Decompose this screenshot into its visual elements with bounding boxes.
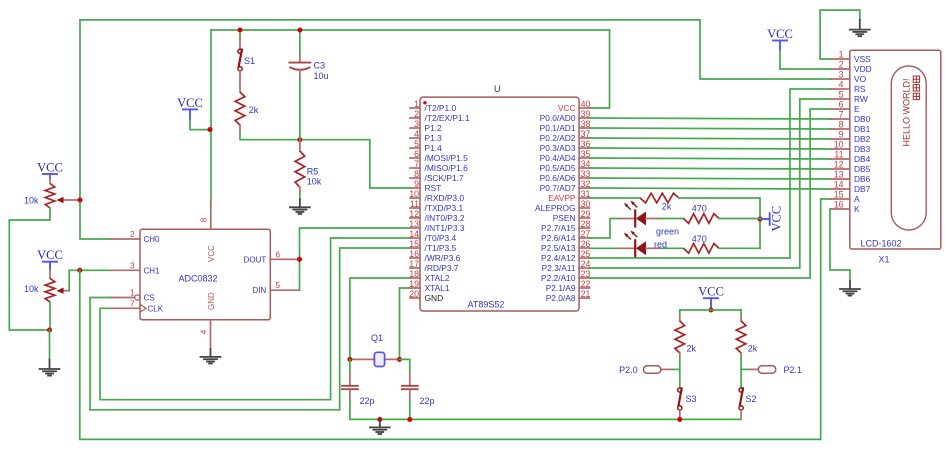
svg-text:7: 7 bbox=[839, 110, 844, 120]
svg-text:DB2: DB2 bbox=[854, 134, 871, 144]
wire P0.3 to DB3 bbox=[590, 148, 831, 149]
crystal Q1 bbox=[350, 352, 400, 366]
svg-text:13: 13 bbox=[834, 170, 844, 180]
svg-text:P0.0/AD0: P0.0/AD0 bbox=[540, 113, 576, 123]
svg-text:/T1/P3.5: /T1/P3.5 bbox=[425, 243, 457, 253]
svg-text:/T0/P3.4: /T0/P3.4 bbox=[425, 233, 457, 243]
junction S3 / gnd bus bbox=[677, 417, 682, 422]
svg-text:/MOSI/P1.5: /MOSI/P1.5 bbox=[425, 153, 469, 163]
resistor R4 2k (S2 pull-up) bbox=[736, 321, 746, 353]
pin 5 DIN stub bbox=[270, 289, 299, 291]
svg-text:17: 17 bbox=[409, 259, 419, 269]
wire VSS to ground bbox=[820, 10, 860, 59]
svg-text:8: 8 bbox=[839, 120, 844, 130]
svg-text:/INT1/P3.3: /INT1/P3.3 bbox=[425, 223, 465, 233]
svg-text:DB5: DB5 bbox=[854, 164, 871, 174]
svg-text:21: 21 bbox=[581, 289, 591, 299]
svg-text:5: 5 bbox=[276, 281, 281, 290]
resistor 2k (below S1) bbox=[235, 92, 245, 125]
svg-text:/RD/P3.7: /RD/P3.7 bbox=[425, 263, 459, 273]
svg-text:DB1: DB1 bbox=[854, 124, 871, 134]
junction DOUT tie bbox=[297, 257, 302, 262]
pin 10 /RXD/P3.0 stub bbox=[410, 197, 420, 199]
wire 470 to VCC riser (green) bbox=[719, 218, 760, 220]
svg-text:1: 1 bbox=[130, 289, 135, 298]
svg-text:10u: 10u bbox=[314, 71, 329, 81]
pin 28 P2.7/A15 stub bbox=[579, 227, 589, 229]
svg-text:S1: S1 bbox=[244, 56, 255, 66]
LCD pin 16 K stub bbox=[831, 208, 850, 210]
svg-text:P2.0: P2.0 bbox=[619, 365, 638, 375]
resistor 2k lower lead bbox=[239, 125, 241, 133]
LCD pin 6 E stub bbox=[831, 108, 850, 110]
wire P0.4 to DB4 bbox=[590, 158, 831, 159]
svg-text:7: 7 bbox=[414, 159, 419, 169]
VCC LCD stem bbox=[779, 41, 781, 51]
svg-text:DB6: DB6 bbox=[854, 174, 871, 184]
pin 23 P2.2/A10 stub bbox=[579, 277, 589, 279]
svg-text:13: 13 bbox=[409, 219, 419, 229]
pin 8 VCC stub bbox=[210, 200, 212, 229]
wire P0.6 to DB6 bbox=[590, 178, 831, 179]
LCD screen text (chinese name) bbox=[913, 76, 919, 100]
wire VCC rail drop to ADC pin 8 bbox=[210, 30, 212, 200]
LCD pin 5 RW stub bbox=[831, 98, 850, 100]
svg-text:C3: C3 bbox=[314, 61, 326, 71]
svg-text:6: 6 bbox=[276, 250, 281, 259]
pot RV2 wiper arrow bbox=[57, 288, 70, 294]
svg-text:20: 20 bbox=[409, 289, 419, 299]
svg-text:22p: 22p bbox=[360, 396, 375, 406]
VCC switches stem bbox=[710, 298, 712, 308]
svg-text:P0.4/AD4: P0.4/AD4 bbox=[540, 153, 576, 163]
wire net VO/CH0 top rail bbox=[80, 20, 831, 79]
svg-text:14: 14 bbox=[834, 180, 844, 190]
svg-text:/TXD/P3.1: /TXD/P3.1 bbox=[425, 203, 464, 213]
svg-text:U: U bbox=[494, 84, 501, 94]
svg-text:3: 3 bbox=[839, 70, 844, 80]
svg-text:XTAL1: XTAL1 bbox=[425, 283, 450, 293]
pin 2 /T2/EX/P1.1 stub bbox=[410, 117, 420, 119]
svg-text:10: 10 bbox=[834, 140, 844, 150]
ground (crystal bus) bbox=[370, 419, 390, 434]
pin 25 P2.4/A12 stub bbox=[579, 257, 589, 259]
svg-text:P2.0/A8: P2.0/A8 bbox=[546, 293, 576, 303]
LCD screen capsule bbox=[891, 66, 926, 230]
pin 9 RST stub bbox=[410, 187, 420, 189]
resistor R5 upper lead bbox=[299, 140, 301, 151]
svg-text:5: 5 bbox=[839, 90, 844, 100]
svg-text:RST: RST bbox=[425, 183, 442, 193]
LCD pin 15 A stub bbox=[831, 198, 850, 200]
svg-text:CLK: CLK bbox=[148, 304, 164, 313]
pin 17 /RD/P3.7 stub bbox=[410, 267, 420, 269]
pin 26 P2.5/A13 stub bbox=[579, 247, 589, 249]
svg-text:AT89S52: AT89S52 bbox=[468, 300, 505, 310]
svg-text:P2.1: P2.1 bbox=[784, 365, 803, 375]
junction VCC rail / C3 bbox=[297, 27, 302, 32]
svg-text:DB0: DB0 bbox=[854, 114, 871, 124]
junction VCC rail / flag bbox=[207, 127, 212, 132]
svg-text:2k: 2k bbox=[687, 344, 697, 354]
wire P2.0 terminal to S3 node bbox=[674, 368, 680, 370]
svg-text:4: 4 bbox=[414, 129, 419, 139]
ground (ADC pin 4) bbox=[201, 349, 221, 364]
wire green LED to 470 bbox=[660, 218, 684, 220]
pin 22 P2.1/A9 stub bbox=[579, 287, 589, 289]
LCD pin 4 RS stub bbox=[831, 88, 850, 90]
junction VCC rail / S1 bbox=[237, 27, 242, 32]
svg-text:4: 4 bbox=[839, 80, 844, 90]
svg-text:E: E bbox=[854, 104, 860, 114]
wire C2 to gnd bus bbox=[409, 401, 411, 419]
pin 30 ALEPROG stub bbox=[579, 207, 589, 209]
wire 470 to VCC riser (red) bbox=[719, 247, 760, 249]
svg-text:15: 15 bbox=[834, 190, 844, 200]
svg-text:P0.7/AD7: P0.7/AD7 bbox=[540, 183, 576, 193]
potentiometer RV1 10k body bbox=[45, 184, 55, 209]
wire bus to R4 bbox=[740, 310, 742, 316]
capacitor C3 bbox=[289, 56, 310, 80]
svg-text:HELLO WORLD!: HELLO WORLD! bbox=[902, 78, 912, 146]
svg-text:GND: GND bbox=[425, 293, 444, 303]
svg-text:/T2/EX/P1.1: /T2/EX/P1.1 bbox=[425, 113, 470, 123]
junction LED VCC riser bbox=[757, 216, 762, 221]
wire CS to P3.5 bbox=[90, 248, 410, 410]
svg-text:1: 1 bbox=[839, 50, 844, 60]
junction crystal left bbox=[347, 357, 352, 362]
wire P2.6 to green LED bbox=[590, 219, 621, 239]
power flag VCC (LCD VDD) bbox=[767, 27, 793, 41]
svg-text:/SCK/P1.7: /SCK/P1.7 bbox=[425, 173, 464, 183]
wire net VCC top rail bbox=[211, 29, 610, 31]
wire red LED to 470 bbox=[660, 247, 684, 249]
wire P2.3 to RW bbox=[590, 99, 831, 268]
svg-text:RS: RS bbox=[854, 84, 866, 94]
svg-text:/RXD/P3.0: /RXD/P3.0 bbox=[425, 193, 465, 203]
svg-text:P1.2: P1.2 bbox=[425, 123, 443, 133]
pin 18 XTAL2 stub bbox=[410, 277, 420, 279]
pin 6 DOUT stub bbox=[270, 258, 299, 260]
svg-text:6: 6 bbox=[414, 149, 419, 159]
wire P2.2 to E bbox=[590, 109, 831, 278]
svg-text:R5: R5 bbox=[307, 167, 319, 177]
svg-text:22: 22 bbox=[581, 279, 591, 289]
pin 1 CS stub with bubble bbox=[110, 297, 134, 299]
svg-text:16: 16 bbox=[409, 249, 419, 259]
junction pot RV1 wiper / net bbox=[77, 197, 82, 202]
LCD pin 1 VSS stub bbox=[831, 58, 850, 60]
svg-text:10: 10 bbox=[409, 189, 419, 199]
svg-text:12: 12 bbox=[834, 160, 844, 170]
wire XTAL2 to crystal bbox=[350, 278, 410, 359]
wire P0.2 to DB2 bbox=[590, 138, 831, 139]
svg-text:VCC: VCC bbox=[770, 206, 784, 232]
pin 19 XTAL1 stub bbox=[410, 287, 420, 289]
wire CH1 net to bottom bus and LCD A bbox=[80, 199, 831, 439]
pin 12 /INT0/P3.2 stub bbox=[410, 217, 420, 219]
wire bus to R3 bbox=[679, 310, 681, 316]
power flag VCC (pot RV2) bbox=[37, 248, 63, 262]
wire 2k to VCC riser bbox=[679, 198, 760, 248]
pin 39 P0.0/AD0 stub bbox=[579, 117, 589, 119]
svg-text:22p: 22p bbox=[420, 396, 435, 406]
wire S1 top connection bbox=[239, 30, 241, 40]
wire CLK to P3.4 bbox=[100, 238, 410, 400]
pin 37 P0.2/AD2 stub bbox=[579, 137, 589, 139]
power flag VCC (near ADC VCC rail) bbox=[177, 96, 203, 110]
wire R3 to S3 bbox=[679, 358, 681, 388]
svg-text:9: 9 bbox=[839, 130, 844, 140]
pin 38 P0.1/AD1 stub bbox=[579, 127, 589, 129]
wire R4 to S2 bbox=[740, 358, 742, 388]
svg-text:28: 28 bbox=[581, 219, 591, 229]
pin 31 EAVPP stub bbox=[579, 197, 589, 199]
ground (VSS, top right) bbox=[850, 20, 870, 36]
ground (below R5) bbox=[290, 199, 310, 214]
junction crystal right bbox=[397, 357, 402, 362]
wire P0.1 to DB1 bbox=[590, 128, 831, 129]
svg-text:GND: GND bbox=[207, 292, 216, 310]
svg-text:K: K bbox=[854, 204, 860, 214]
pin 40 VCC stub bbox=[579, 107, 589, 109]
svg-text:P0.6/AD6: P0.6/AD6 bbox=[540, 173, 576, 183]
power flag VCC (LED, rotated) bbox=[761, 206, 784, 232]
svg-text:S2: S2 bbox=[746, 394, 757, 404]
svg-text:XTAL2: XTAL2 bbox=[425, 273, 450, 283]
svg-text:2: 2 bbox=[130, 230, 135, 239]
pot RV2 top lead bbox=[49, 270, 51, 278]
svg-text:P2.7/A15: P2.7/A15 bbox=[541, 223, 576, 233]
svg-text:P0.5/AD5: P0.5/AD5 bbox=[540, 163, 576, 173]
wire C3 top connection bbox=[299, 30, 301, 56]
pot RV1 top lead bbox=[49, 178, 51, 184]
wire P0.7 to DB7 bbox=[590, 188, 831, 189]
LCD pin 9 DB2 stub bbox=[831, 138, 850, 140]
wire pot RV2 bottom bbox=[49, 302, 51, 330]
LCD pin 2 VDD stub bbox=[831, 68, 850, 70]
pin 7 /MISO/P1.6 stub bbox=[410, 167, 420, 169]
svg-text:VDD: VDD bbox=[854, 64, 872, 74]
svg-text:3: 3 bbox=[414, 119, 419, 129]
switch S1 bbox=[238, 40, 242, 79]
LCD pin 12 DB5 stub bbox=[831, 168, 850, 170]
svg-text:40: 40 bbox=[581, 99, 591, 109]
terminal P2.0 bbox=[644, 366, 674, 373]
pin 3 CH1 stub bbox=[110, 269, 140, 271]
svg-text:VCC: VCC bbox=[207, 245, 216, 262]
pin 36 P0.3/AD3 stub bbox=[579, 147, 589, 149]
pin 7 CLK stub with clock mark bbox=[110, 307, 140, 309]
pin 8 /SCK/P1.7 stub bbox=[410, 177, 420, 179]
pin 34 P0.5/AD5 stub bbox=[579, 167, 589, 169]
junction gnd bus / ground bbox=[377, 417, 382, 422]
LCD pin 8 DB1 stub bbox=[831, 128, 850, 130]
svg-text:3: 3 bbox=[130, 261, 135, 270]
svg-text:26: 26 bbox=[581, 239, 591, 249]
svg-text:6: 6 bbox=[839, 100, 844, 110]
capacitor C2 22p bbox=[402, 373, 418, 401]
wire VCC flag to VDD bbox=[780, 51, 831, 69]
svg-text:2: 2 bbox=[414, 109, 419, 119]
svg-text:470: 470 bbox=[692, 234, 707, 244]
wire net CH0 left riser bbox=[80, 20, 110, 239]
svg-text:9: 9 bbox=[414, 179, 419, 189]
pin 4 GND stub bbox=[210, 320, 212, 349]
svg-text:/INT0/P3.2: /INT0/P3.2 bbox=[425, 213, 465, 223]
resistor 470 (green LED) bbox=[684, 214, 720, 224]
pin 5 P1.4 stub bbox=[410, 147, 420, 149]
svg-text:VCC: VCC bbox=[37, 248, 63, 262]
LCD pin 3 VO stub bbox=[831, 78, 850, 80]
wire P2.4 to RS bbox=[590, 89, 831, 258]
LCD pin 10 DB3 stub bbox=[831, 148, 850, 150]
resistor 470 (red LED) bbox=[684, 244, 720, 254]
svg-text:18: 18 bbox=[409, 269, 419, 279]
svg-text:1: 1 bbox=[414, 99, 419, 109]
svg-text:30: 30 bbox=[581, 199, 591, 209]
pin 11 /TXD/P3.1 stub bbox=[410, 207, 420, 209]
wire VCC flag stem (near ADC) bbox=[189, 109, 191, 119]
svg-text:2: 2 bbox=[839, 60, 844, 70]
LCD pin 11 DB4 stub bbox=[831, 158, 850, 160]
svg-text:P2.2/A10: P2.2/A10 bbox=[541, 273, 576, 283]
svg-text:VCC: VCC bbox=[37, 161, 63, 175]
wire P0.0 to DB0 bbox=[590, 118, 831, 119]
svg-text:/T2/P1.0: /T2/P1.0 bbox=[425, 103, 457, 113]
wire P2.5 to red LED bbox=[590, 247, 621, 249]
LCD pin 14 DB7 stub bbox=[831, 188, 850, 190]
pot RV1 wiper arrow bbox=[57, 197, 81, 203]
pin 20 GND stub bbox=[410, 297, 420, 299]
wire VCC flag to rail bbox=[190, 120, 210, 130]
svg-text:CH1: CH1 bbox=[144, 266, 161, 275]
svg-text:DB4: DB4 bbox=[854, 154, 871, 164]
svg-text:EAVPP: EAVPP bbox=[548, 193, 576, 203]
resistor R3 2k upper lead bbox=[679, 316, 681, 321]
pin 13 /INT1/P3.3 stub bbox=[410, 227, 420, 229]
svg-text:P0.1/AD1: P0.1/AD1 bbox=[540, 123, 576, 133]
pin 29 PSEN stub bbox=[579, 217, 589, 219]
pin 14 /T0/P3.4 stub bbox=[410, 237, 420, 239]
svg-text:ALEPROG: ALEPROG bbox=[535, 203, 576, 213]
svg-text:VSS: VSS bbox=[854, 54, 871, 64]
MCU pin 1 marker bbox=[423, 101, 426, 104]
resistor R5 bbox=[295, 151, 305, 187]
wire C3 bottom to junction bbox=[299, 79, 301, 139]
svg-text:29: 29 bbox=[581, 209, 591, 219]
svg-text:P2.1/A9: P2.1/A9 bbox=[546, 283, 576, 293]
svg-text:P1.3: P1.3 bbox=[425, 133, 443, 143]
svg-text:2k: 2k bbox=[748, 344, 758, 354]
svg-text:2k: 2k bbox=[662, 202, 672, 212]
svg-text:DOUT: DOUT bbox=[244, 255, 267, 264]
pot RV2 stem bbox=[49, 262, 51, 270]
svg-text:X1: X1 bbox=[878, 255, 889, 265]
svg-text:P2.6/A14: P2.6/A14 bbox=[541, 233, 576, 243]
LCD pin 7 DB0 stub bbox=[831, 118, 850, 120]
svg-text:2k: 2k bbox=[249, 105, 259, 115]
capacitor C1 22p bbox=[342, 373, 358, 401]
svg-text:ADC0832: ADC0832 bbox=[178, 274, 217, 284]
wire crystal left to C1 bbox=[349, 359, 351, 373]
junction CH1 / backlight net bbox=[77, 268, 82, 273]
svg-text:11: 11 bbox=[410, 199, 419, 209]
terminal P2.1 bbox=[747, 366, 776, 373]
wire crystal ground bus bbox=[350, 418, 741, 420]
svg-text:VCC: VCC bbox=[698, 285, 724, 299]
wire K to ground bbox=[830, 209, 850, 281]
pin 24 P2.3/A11 stub bbox=[579, 267, 589, 269]
wire pot RV1 bottom to ground rail bbox=[9, 208, 50, 330]
wire S1/2k bottom to RST row bbox=[240, 133, 410, 189]
wire switch VCC bus bbox=[680, 309, 741, 311]
svg-text:DB7: DB7 bbox=[854, 184, 871, 194]
ADC0832 U2 body bbox=[140, 229, 270, 319]
svg-text:12: 12 bbox=[409, 209, 419, 219]
wire R5 to ground bbox=[299, 194, 301, 200]
svg-text:P1.4: P1.4 bbox=[425, 143, 443, 153]
wire VCC rail to MCU pin 40 bbox=[590, 30, 610, 108]
potentiometer RV2 10k body bbox=[45, 278, 55, 302]
svg-text:VO: VO bbox=[854, 74, 867, 84]
resistor R3 2k (S3 pull-up) bbox=[675, 321, 685, 353]
wire pot RV2 wiper to CH1 bbox=[69, 270, 110, 290]
pin 4 P1.3 stub bbox=[410, 137, 420, 139]
pin 27 P2.6/A14 stub bbox=[579, 237, 589, 239]
svg-text:19: 19 bbox=[409, 279, 419, 289]
svg-text:VCC: VCC bbox=[558, 103, 576, 113]
svg-text:CS: CS bbox=[144, 294, 155, 303]
svg-text:P2.3/A11: P2.3/A11 bbox=[542, 263, 576, 273]
svg-text:P0.3/AD3: P0.3/AD3 bbox=[540, 143, 576, 153]
svg-text:5: 5 bbox=[414, 139, 419, 149]
svg-text:P2.5/A13: P2.5/A13 bbox=[541, 243, 576, 253]
pin 1 /T2/P1.0 stub bbox=[410, 107, 420, 109]
svg-text:Q1: Q1 bbox=[371, 333, 383, 343]
switch S3 bbox=[678, 388, 682, 418]
wire P0.5 to DB5 bbox=[590, 168, 831, 169]
resistor 2k (below S1) lead bbox=[239, 78, 241, 92]
power flag VCC (pot RV1) bbox=[37, 161, 63, 175]
wire DOUT/DIN to P3.3 bbox=[300, 228, 411, 290]
LED D2 red bbox=[620, 230, 660, 256]
svg-text:14: 14 bbox=[409, 229, 419, 239]
svg-text:VCC: VCC bbox=[177, 96, 203, 110]
svg-text:LCD-1602: LCD-1602 bbox=[860, 238, 901, 248]
junction pots ground bbox=[47, 327, 52, 332]
resistor 2k (EAVPP) bbox=[640, 193, 679, 203]
switch S2 bbox=[739, 388, 743, 418]
svg-text:15: 15 bbox=[409, 239, 419, 249]
wire EAVPP to R 2k bbox=[590, 197, 641, 199]
svg-text:7: 7 bbox=[130, 299, 135, 308]
pin 3 P1.2 stub bbox=[410, 127, 420, 129]
wire pots to ground bbox=[49, 330, 51, 360]
svg-text:8: 8 bbox=[200, 217, 209, 222]
pin 21 P2.0/A8 stub bbox=[579, 297, 589, 299]
svg-text:green: green bbox=[656, 227, 679, 237]
resistor R5 lower lead bbox=[299, 187, 301, 193]
pin 32 P0.7/AD7 stub bbox=[579, 187, 589, 189]
LCD X1 LCD-1602 body bbox=[850, 50, 941, 249]
power flag VCC (switch pull-ups) bbox=[698, 285, 724, 299]
junction VCC switches bbox=[708, 307, 713, 312]
svg-text:11: 11 bbox=[834, 150, 843, 160]
svg-text:DIN: DIN bbox=[253, 286, 267, 295]
svg-text:PSEN: PSEN bbox=[553, 213, 576, 223]
pot RV1 stem bbox=[49, 174, 51, 178]
